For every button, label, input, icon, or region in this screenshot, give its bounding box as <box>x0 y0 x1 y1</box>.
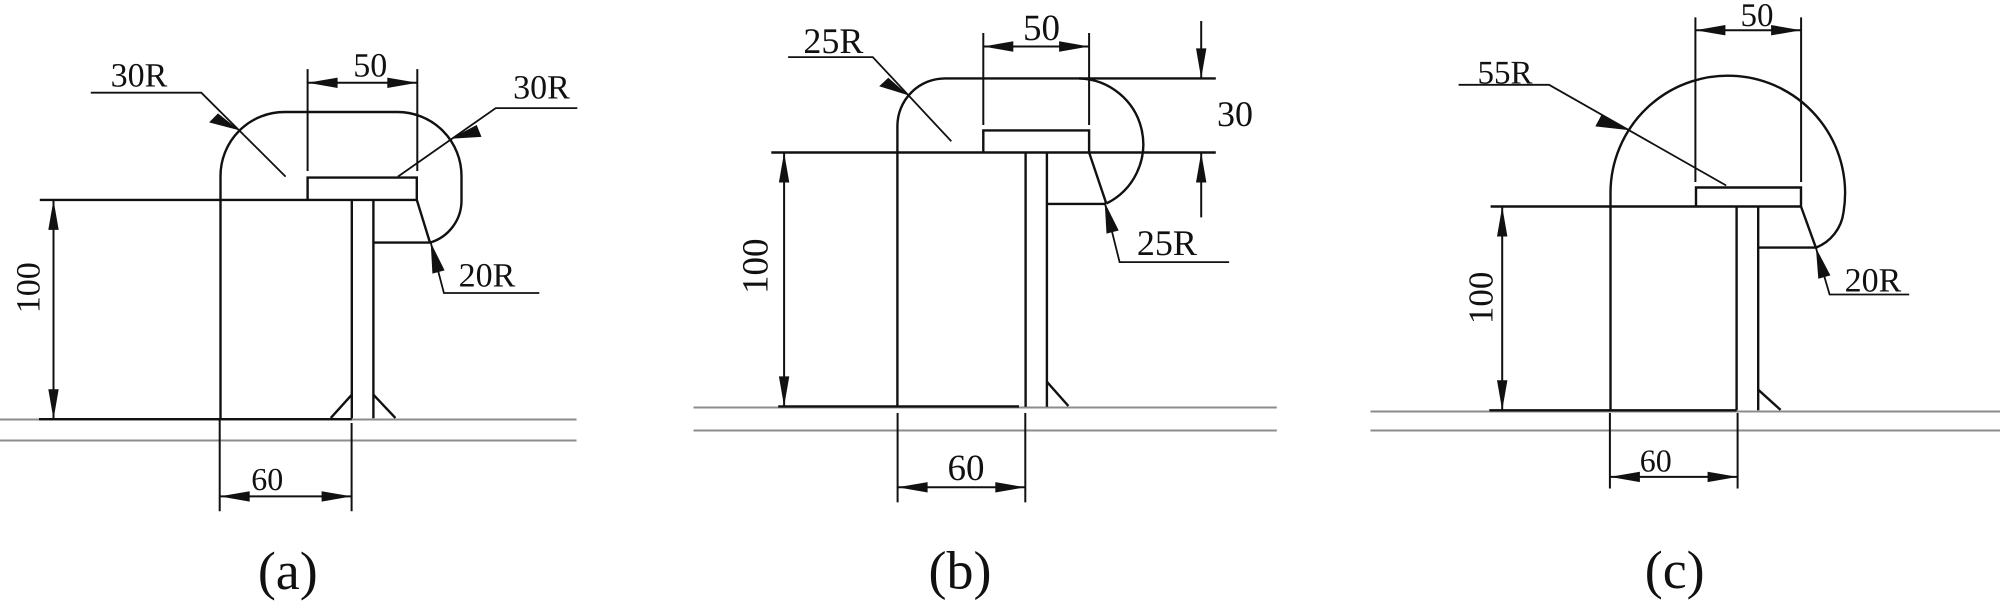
svg-text:25R: 25R <box>803 21 863 61</box>
(b) dim 30 line lower segment <box>1200 153 1202 218</box>
(a) diagonal from plate corner <box>417 200 430 243</box>
(b) dim 100 line with arrows <box>783 153 785 407</box>
(a) cap bottom horizontal <box>373 241 430 243</box>
(b) dim 50 extension lines <box>982 33 984 125</box>
(c) dim 100 line with arrows <box>1501 207 1503 411</box>
(c) dim 50 extension lines <box>1694 17 1696 182</box>
(c) dim 60 extension lines <box>1609 413 1611 489</box>
svg-text:60: 60 <box>948 448 985 489</box>
svg-text:20R: 20R <box>459 258 516 295</box>
(a) leader 30R right <box>398 108 577 177</box>
(c) wall bottom line <box>1489 409 1736 411</box>
svg-text:100: 100 <box>1461 272 1500 325</box>
(b) dim 50 line with arrows <box>983 46 1089 48</box>
svg-text:20R: 20R <box>1845 263 1902 300</box>
(b) post right line <box>1046 153 1048 407</box>
(b) ground line 1 <box>694 407 1277 409</box>
(a) ground line 2 <box>0 440 577 442</box>
(c) right gusset <box>1758 390 1780 410</box>
(b) plate rectangle <box>983 130 1089 152</box>
(c) post right line <box>1757 207 1759 411</box>
(a) leader 30R left <box>91 93 286 177</box>
(c) post left line <box>1735 207 1737 411</box>
(b) post left line <box>1024 153 1026 407</box>
svg-text:25R: 25R <box>1137 223 1197 263</box>
(b) dim 60 extension lines <box>897 413 899 502</box>
(c) plate rectangle <box>1696 188 1801 207</box>
svg-text:(b): (b) <box>929 541 992 601</box>
(c) leader 55R <box>1459 85 1727 186</box>
svg-text:30R: 30R <box>513 70 570 107</box>
(a) ground line 1 <box>0 419 577 421</box>
(a) dim 60 line with arrows <box>220 495 352 497</box>
(a) post right line <box>372 200 374 418</box>
(a) post left line <box>351 200 353 418</box>
svg-text:(c): (c) <box>1645 540 1705 600</box>
(c) dome cap outline <box>1611 76 1846 248</box>
svg-text:100: 100 <box>735 239 776 295</box>
svg-text:50: 50 <box>1023 8 1060 49</box>
(c) dim 50 line with arrows <box>1695 29 1801 31</box>
(b) leader 25R right <box>1105 202 1229 262</box>
svg-text:(a): (a) <box>258 541 318 601</box>
(b) rail cap outline <box>897 78 1143 203</box>
(b) wall top line <box>771 151 1216 153</box>
(c) cap bottom horizontal <box>1758 246 1816 248</box>
(c) diagonal from plate corner <box>1801 207 1816 248</box>
(c) ground line 2 <box>1371 430 2000 432</box>
(a) right gusset <box>373 395 395 418</box>
svg-text:60: 60 <box>251 461 283 497</box>
(a) rail cap outline <box>221 112 462 419</box>
(c) ground line 1 <box>1371 411 2000 413</box>
svg-text:60: 60 <box>1640 443 1672 479</box>
(a) plate rectangle <box>308 178 417 200</box>
(a) dim 50 line with arrows <box>308 82 418 84</box>
(a) left gusset <box>331 395 352 418</box>
(b) wall bottom line <box>778 405 1019 407</box>
(b) cap bottom horizontal <box>1047 203 1106 205</box>
(b) leader 25R left <box>788 57 951 141</box>
(c) dim 60 line with arrows <box>1610 476 1738 478</box>
(a) dim 50 extension lines <box>307 69 309 171</box>
(b) dim 60 line with arrows <box>898 486 1026 488</box>
svg-text:100: 100 <box>11 262 48 313</box>
(b) cap top extension to dim 30 <box>1079 77 1216 79</box>
svg-text:30R: 30R <box>111 58 168 95</box>
(a) dim 60 extension lines <box>219 420 221 511</box>
(b) right gusset <box>1047 382 1069 406</box>
(a) dim 100 line with arrows <box>53 200 55 419</box>
svg-text:50: 50 <box>1741 0 1774 34</box>
(b) ground line 2 <box>694 430 1277 432</box>
(c) leader 20R <box>1816 248 1909 295</box>
svg-text:50: 50 <box>353 48 387 85</box>
(a) leader 20R <box>431 242 540 293</box>
(a) wall bottom line <box>39 418 352 420</box>
(a) wall top line <box>40 199 417 201</box>
svg-text:30: 30 <box>1217 94 1253 134</box>
(c) wall top line <box>1491 205 1801 207</box>
svg-text:55R: 55R <box>1477 56 1532 92</box>
(b) diagonal from plate corner <box>1089 153 1106 204</box>
(b) wall left line <box>896 153 898 407</box>
(b) dim 30 line upper segment <box>1200 21 1202 78</box>
(c) wall left line <box>1609 207 1611 411</box>
